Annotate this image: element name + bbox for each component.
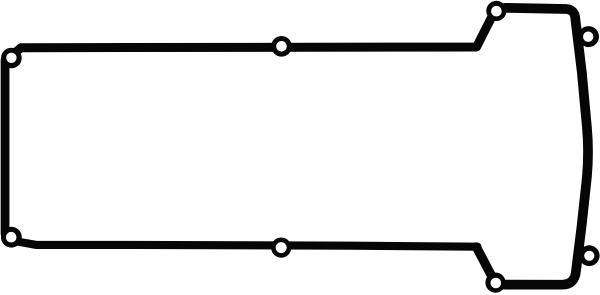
bolt hole eyelet E1 top-left	[1, 48, 22, 69]
bolt hole eyelet E4 right-top	[578, 26, 599, 47]
bolt hole eyelet E8 bottom-left	[1, 227, 22, 248]
wire: bottom rail to bottom-left eyelet	[16, 241, 478, 246]
wire: top rail from top-left eyelet to upper-right diagonal	[13, 14, 494, 55]
bolt hole eyelet E2 top-middle	[271, 36, 292, 57]
bolt hole eyelet E6 bottom-right	[485, 273, 505, 293]
bolt hole eyelet E5 right-bottom	[579, 245, 600, 266]
wire: bottom diagonal from bottom-right eyelet up to bottom rail	[476, 247, 494, 281]
bolt hole eyelet E7 bottom-middle	[271, 238, 291, 258]
wire: upper-right rail, bowed right edge and bottom-right rail	[496, 8, 588, 285]
wire: left rail	[1, 60, 10, 234]
bolt hole eyelet E3 upper-right	[486, 1, 506, 21]
